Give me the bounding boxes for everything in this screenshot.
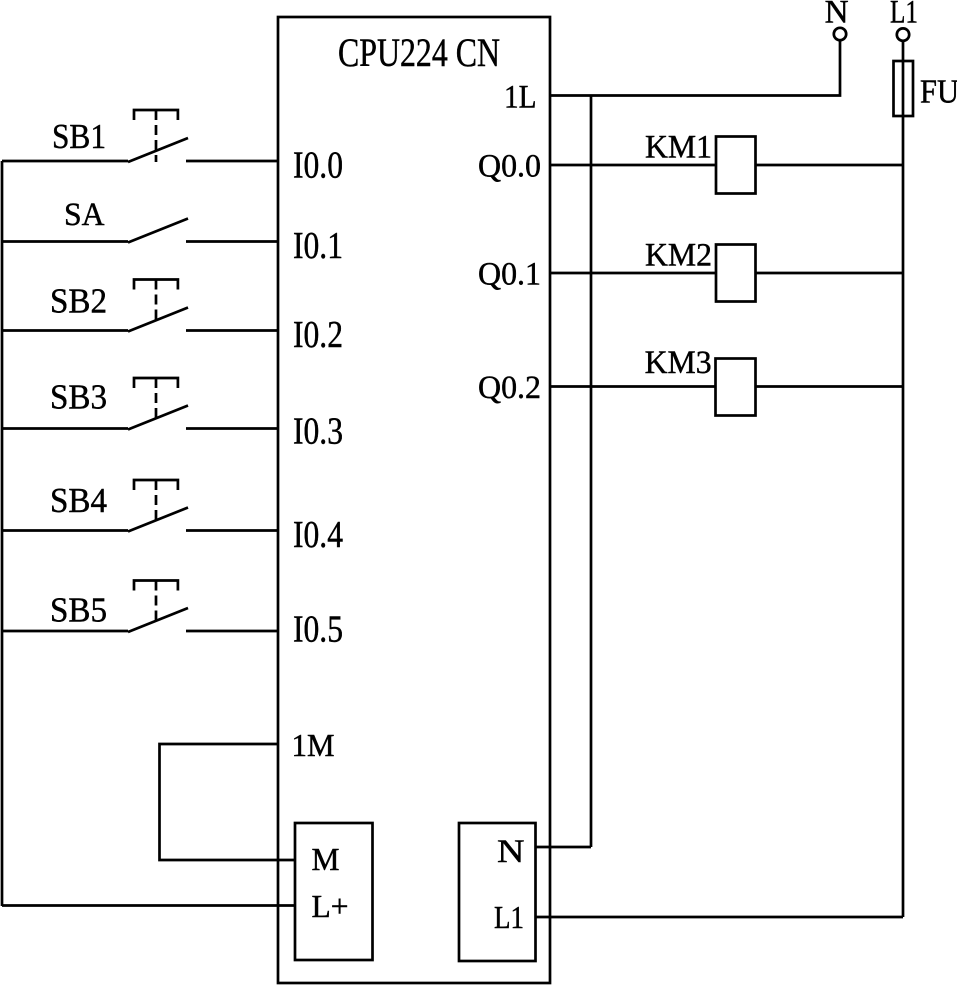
svg-text:KM3: KM3 [645,345,712,381]
fuse FU [894,61,914,116]
svg-text:1M: 1M [292,727,335,763]
wire row I0.4 [2,529,278,532]
vertical bus 1L [590,96,593,848]
wire row I0.3 [2,427,278,430]
coil KM3 [716,359,756,416]
svg-text:1L: 1L [504,80,537,116]
switch SB4 blade [128,508,188,532]
wire Q0.0 to KM1 [550,164,903,167]
wire row I0.1 [2,240,278,243]
switch SB1 blade [128,138,188,162]
wire L1 down through fuse [902,42,905,918]
svg-text:SB5: SB5 [50,592,107,630]
svg-text:I0.1: I0.1 [293,225,343,267]
wire row I0.5 [2,630,278,633]
svg-text:SB3: SB3 [50,379,107,417]
wire Q0.1 to KM2 [550,272,903,275]
svg-text:SA: SA [64,197,105,233]
wire 1L to N terminal [550,41,840,96]
switch SB2 blade [128,308,188,332]
wire L+ [2,904,295,907]
wire row I0.2 [2,329,278,332]
button SB4 actuator [134,480,178,490]
wire row I0.0 [2,160,278,163]
terminal N circle [834,28,846,40]
svg-text:L1: L1 [890,0,918,30]
svg-text:M: M [312,841,340,877]
svg-text:L1: L1 [494,899,524,935]
svg-text:SB1: SB1 [52,118,106,156]
switch SA blade [128,219,188,243]
switch SB5 blade [128,608,188,632]
terminal box N / L1 [459,823,536,961]
svg-text:I0.3: I0.3 [293,411,343,453]
left rail wire [1,161,4,906]
wire N to bus [536,846,592,849]
wire 1M loop [160,744,296,860]
svg-text:KM2: KM2 [645,238,712,274]
wire L1 bottom [536,916,904,919]
svg-text:FU: FU [920,74,957,111]
svg-text:I0.0: I0.0 [293,145,343,187]
coil KM2 [716,245,756,302]
svg-text:N: N [497,834,525,870]
svg-text:I0.2: I0.2 [293,314,343,356]
svg-text:L+: L+ [312,888,349,924]
svg-text:I0.5: I0.5 [293,609,343,651]
terminal box M / L+ [295,823,373,960]
PLC box CPU224 CN [278,17,550,983]
svg-text:Q0.1: Q0.1 [478,256,541,292]
button SB3 actuator [134,378,178,388]
svg-text:N: N [825,0,849,30]
svg-text:I0.4: I0.4 [293,514,343,556]
svg-text:SB2: SB2 [50,283,107,321]
button SB2 actuator [134,280,178,290]
svg-text:Q0.2: Q0.2 [478,370,541,406]
svg-text:KM1: KM1 [645,130,712,166]
coil KM1 [716,137,756,194]
wire Q0.2 to KM3 [550,385,903,388]
svg-text:CPU224 CN: CPU224 CN [338,30,500,75]
svg-text:Q0.0: Q0.0 [478,148,541,184]
button SB1 actuator [134,110,178,120]
terminal L1 circle [897,28,909,40]
switch SB3 blade [128,406,188,430]
button SB5 actuator [134,581,178,591]
svg-text:SB4: SB4 [50,482,107,520]
